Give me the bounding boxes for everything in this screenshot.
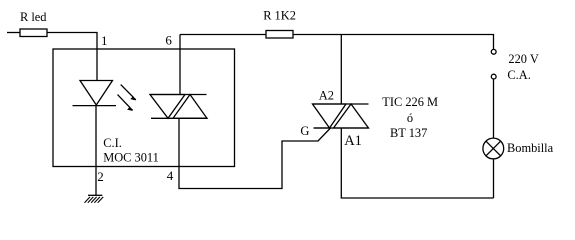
resistor R 1K2 xyxy=(266,31,293,39)
wire pin 4 down to gate path xyxy=(179,118,331,188)
wire G lead xyxy=(314,127,331,129)
ground xyxy=(85,195,104,203)
svg-text:A1: A1 xyxy=(344,133,362,149)
wire bulb to bottom rail xyxy=(493,159,495,198)
svg-text:ó: ó xyxy=(407,111,413,125)
top rail pin6 to R1K2 xyxy=(180,34,266,36)
svg-text:220 V: 220 V xyxy=(508,52,538,66)
wire pin 6 to top rail xyxy=(179,35,181,95)
light arrow 2 xyxy=(118,95,133,111)
wire A2 from top rail xyxy=(340,35,342,105)
light arrow 1 xyxy=(121,85,136,100)
svg-text:Bombilla: Bombilla xyxy=(507,141,554,155)
wire LED cathode to ground xyxy=(95,106,97,196)
wire input stub left of R led xyxy=(7,32,20,34)
svg-text:4: 4 xyxy=(167,168,174,183)
svg-text:R 1K2: R 1K2 xyxy=(263,8,296,22)
svg-text:R led: R led xyxy=(20,10,47,24)
svg-text:TIC 226 M: TIC 226 M xyxy=(382,95,438,109)
svg-text:C.I.: C.I. xyxy=(103,136,122,150)
svg-text:G: G xyxy=(300,124,309,138)
svg-text:2: 2 xyxy=(97,169,104,184)
wire A1 to bottom rail xyxy=(341,128,493,198)
photo-triac inside opto xyxy=(150,95,207,119)
lamp bombilla xyxy=(483,138,504,159)
top rail R1K2 to AC terminal xyxy=(293,35,494,50)
AC source terminal bottom xyxy=(491,74,496,79)
svg-text:BT 137: BT 137 xyxy=(390,126,427,140)
AC source terminal top xyxy=(491,49,496,54)
wire R led to pin 1 corner xyxy=(47,33,97,81)
triac Q1 xyxy=(313,104,369,128)
svg-text:1: 1 xyxy=(101,33,108,48)
wire terminal to bulb xyxy=(493,79,495,138)
svg-text:MOC 3011: MOC 3011 xyxy=(103,150,159,164)
LED inside opto xyxy=(73,81,117,106)
svg-text:A2: A2 xyxy=(319,88,334,102)
svg-text:6: 6 xyxy=(165,33,172,48)
opto-coupler U1 MOC3011 box xyxy=(53,49,235,167)
svg-text:C.A.: C.A. xyxy=(507,68,530,82)
resistor R led xyxy=(20,29,47,37)
